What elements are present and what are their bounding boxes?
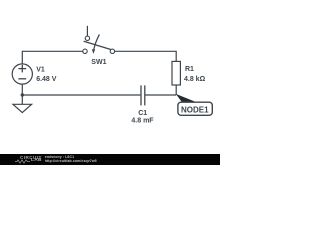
wire V1 bottom to ground: [21, 84, 23, 104]
logo resistor zigzag: [15, 160, 30, 163]
wire bottom rail left (junction to capacitor): [22, 94, 140, 96]
wire bottom rail right (capacitor to resistor bottom): [145, 94, 176, 96]
NODE1 flag pointer: [176, 94, 197, 104]
watermark text line 1: [45, 155, 74, 159]
resistor R1: [172, 61, 180, 85]
svg-text:SW1: SW1: [91, 59, 106, 66]
NODE1 box: [178, 102, 212, 115]
ground: [13, 104, 32, 112]
SW1 arrowhead: [92, 49, 95, 54]
SW1 right terminal circle: [110, 49, 114, 53]
V1 minus sign: [18, 78, 26, 80]
footer watermark bar: [0, 154, 220, 165]
voltage source V1: [12, 64, 32, 84]
SW1 actuator arrow shaft: [94, 34, 100, 49]
svg-text:R1: R1: [185, 66, 194, 73]
capacitor C1: [141, 85, 145, 105]
SW1 top throw circle: [85, 36, 89, 40]
SW1 left terminal circle: [83, 49, 87, 53]
svg-text:V1: V1: [36, 67, 45, 74]
CircuitLab logo: [20, 155, 42, 160]
svg-text:C1: C1: [138, 110, 147, 117]
wire from V1 top to switch left terminal: [22, 51, 83, 64]
SW1 blade: [84, 41, 110, 49]
junction node dot: [21, 93, 24, 96]
wire below resistor R1: [175, 85, 177, 95]
V1 body circle: [12, 64, 32, 84]
wire from switch right terminal to resistor top: [115, 51, 177, 61]
switch SW1: [83, 26, 115, 54]
SW1 top throw stub: [86, 26, 88, 36]
V1 plus sign: [18, 68, 26, 70]
watermark text line 2: [45, 159, 97, 163]
svg-text:NODE1: NODE1: [181, 105, 209, 114]
svg-text:4.8 kΩ: 4.8 kΩ: [184, 76, 206, 83]
svg-text:6.48 V: 6.48 V: [36, 76, 57, 83]
svg-text:4.8 mF: 4.8 mF: [131, 117, 154, 124]
